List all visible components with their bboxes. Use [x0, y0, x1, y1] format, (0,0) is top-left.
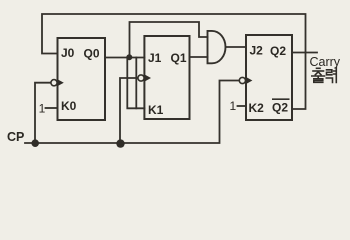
wire: Q0 node up to rail B and down into AND gate top input: [130, 22, 208, 58]
svg-text:Q2: Q2: [272, 101, 288, 115]
svg-text:K0: K0: [61, 99, 77, 113]
clock triangle FF0: [57, 79, 64, 86]
wire: logic 1 stub to K2: [238, 105, 247, 107]
svg-text:1: 1: [39, 102, 46, 116]
flip-flop U0 box: [58, 38, 106, 120]
svg-text:Q2: Q2: [270, 44, 286, 58]
flip-flop U1 box: [144, 36, 189, 119]
overline of Q2-bar: [272, 98, 290, 100]
glyph 출: [317, 67, 321, 69]
wire: Q2 output to Carry terminal: [292, 52, 317, 54]
wire: CP branch to FF1 clock: [120, 78, 138, 143]
svg-text:K1: K1: [148, 103, 164, 117]
paper background: [0, 0, 350, 158]
svg-text:CP: CP: [7, 130, 24, 144]
wire: Q1 output to AND gate bottom input: [190, 56, 208, 58]
wire: AND gate output to J2 input: [226, 46, 247, 48]
clock bubble FF2: [239, 77, 245, 83]
wire: CP branch to FF0 clock: [35, 83, 51, 143]
glyph 력: [327, 70, 332, 75]
svg-text:Q0: Q0: [84, 47, 100, 61]
junction node: CP to FF0 clock dot: [31, 139, 39, 147]
flip-flop U2 box: [246, 35, 292, 120]
wire: Q2-bar feedback rail to J0: [42, 14, 306, 109]
label Hangul 출력 (output), hand drawn: [312, 68, 337, 83]
wire: Q0 output to J1 input: [105, 57, 144, 59]
svg-text:Q1: Q1: [171, 51, 187, 65]
wire: CP rail and rise to FF2 clock: [25, 81, 239, 144]
clock triangle FF2: [246, 77, 253, 84]
wire: Q0 down to K1 input (right drop): [135, 58, 137, 109]
clock triangle FF1: [144, 74, 151, 81]
junction node: Q0 fanout dot: [126, 54, 132, 60]
svg-text:K2: K2: [249, 101, 265, 115]
svg-text:1: 1: [230, 99, 237, 113]
junction node: CP to FF1 clock dot: [116, 139, 124, 147]
clock bubble FF0: [51, 80, 57, 86]
AND gate U3: [208, 31, 226, 63]
clock bubble FF1: [138, 75, 144, 81]
svg-text:Carry: Carry: [310, 55, 341, 69]
wire: logic 1 stub to K0: [46, 107, 58, 109]
svg-text:J1: J1: [148, 51, 162, 65]
svg-text:J2: J2: [250, 44, 264, 58]
svg-text:J0: J0: [61, 46, 75, 60]
wire: Q0 down to K1 input (left drop): [127, 58, 144, 109]
